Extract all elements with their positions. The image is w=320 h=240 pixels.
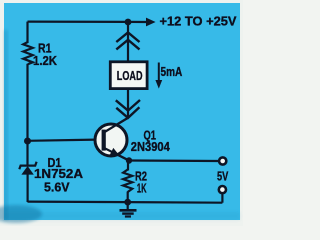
node B (emitter junction) — [126, 157, 132, 163]
node top (supply junction) — [125, 19, 132, 26]
node ground junction — [124, 199, 131, 206]
svg-text:1K: 1K — [137, 181, 147, 196]
wire R1 to node A — [26, 64, 28, 142]
LOAD box — [110, 62, 147, 89]
wire top rail — [28, 21, 147, 24]
wire R2 to ground node — [127, 192, 129, 203]
transistor Q1 emitter arrowhead — [110, 148, 120, 156]
wire node B to R2 — [127, 161, 129, 171]
terminal return — [219, 186, 226, 193]
wire emitter node B to output terminal — [129, 159, 219, 162]
svg-text:5.6V: 5.6V — [44, 179, 70, 194]
svg-text:5mA: 5mA — [161, 64, 183, 79]
wire LOAD bottom to chevron apex — [127, 90, 129, 118]
zener D1 — [19, 162, 36, 175]
chevron pair up (load top connection) — [116, 32, 139, 49]
wire base (node A to Q1) — [28, 140, 97, 141]
wire collector diagonal into Q1 — [105, 118, 128, 132]
svg-text:2N3904: 2N3904 — [131, 139, 171, 154]
terminal output 5V — [219, 157, 226, 164]
transistor Q1 circle — [95, 124, 127, 156]
svg-text:5V: 5V — [217, 169, 229, 184]
wire zener to bottom rail — [27, 174, 29, 203]
wire lower terminal stub — [221, 194, 223, 203]
transistor Q1 emitter lead inside — [105, 148, 129, 160]
transistor Q1 base bar — [102, 130, 106, 151]
wire emitter diagonal to node B — [105, 148, 129, 160]
wire collector drop (node to LOAD top) — [127, 22, 129, 61]
svg-text:+12 TO +25V: +12 TO +25V — [160, 13, 237, 28]
wire bottom rail — [28, 202, 223, 203]
transistor Q1 collector lead inside — [105, 118, 128, 132]
resistor R1 — [23, 42, 33, 64]
svg-text:LOAD: LOAD — [117, 68, 143, 83]
resistor R2 — [123, 170, 132, 193]
wire node A to zener — [26, 141, 28, 165]
ground — [120, 202, 137, 217]
arrow 5mA — [158, 63, 160, 82]
svg-text:1.2K: 1.2K — [33, 53, 58, 68]
node A (base/zener junction) — [24, 138, 31, 145]
arrow supply — [146, 18, 156, 27]
chevron pair down (load bottom connection) — [116, 100, 140, 118]
wire left vertical (rail to R1) — [26, 22, 28, 43]
